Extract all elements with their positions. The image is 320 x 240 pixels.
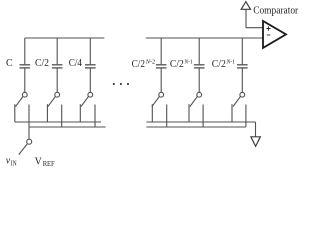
wire bus bottom right [146, 126, 246, 128]
svg-text:Comparator: Comparator [253, 5, 299, 16]
switch S0 input selector [19, 127, 32, 155]
wire bus top right [146, 121, 255, 123]
svg-text:C/2: C/2 [35, 58, 49, 69]
pin plus label [266, 26, 270, 30]
svg-text:C: C [6, 58, 13, 69]
svg-text:REF: REF [43, 160, 55, 168]
switch S2 [47, 92, 61, 127]
wire bus bottom left [29, 126, 106, 128]
capacitor C4 (C/2^N-2) [156, 38, 167, 92]
node dots ellipsis [113, 83, 129, 85]
op-amp U1 comparator [263, 21, 286, 48]
svg-text:N-1: N-1 [226, 58, 235, 65]
svg-text:C/2: C/2 [170, 59, 184, 70]
wire top rail left segment [25, 37, 105, 39]
switch S1 [15, 92, 29, 127]
switch S6 [232, 92, 246, 127]
capacitor C3 (C/4) [85, 38, 96, 92]
capacitor C2 (C/2) [52, 38, 63, 92]
node output arrow up [241, 2, 250, 10]
switch S5 [189, 92, 203, 127]
switch S3 [80, 92, 95, 127]
capacitor C6 (C/2^N-1) [237, 38, 248, 92]
switch S4 [152, 92, 167, 127]
svg-text:N-2: N-2 [145, 58, 155, 65]
wire comparator plus input [246, 9, 263, 27]
wire to ground arrow [255, 122, 257, 137]
wire top rail right segment [146, 37, 263, 39]
ground [251, 137, 261, 147]
wire bus top left [15, 121, 101, 123]
capacitor C5 (C/2^N-1) [194, 38, 205, 92]
svg-text:N-1: N-1 [184, 58, 193, 65]
svg-text:V: V [35, 157, 43, 168]
pin minus label [267, 34, 271, 36]
svg-text:IN: IN [11, 159, 17, 167]
svg-text:C/2: C/2 [132, 59, 145, 70]
svg-text:C/2: C/2 [212, 59, 226, 70]
capacitor C1 (C) [20, 38, 31, 92]
svg-text:C/4: C/4 [69, 58, 82, 69]
